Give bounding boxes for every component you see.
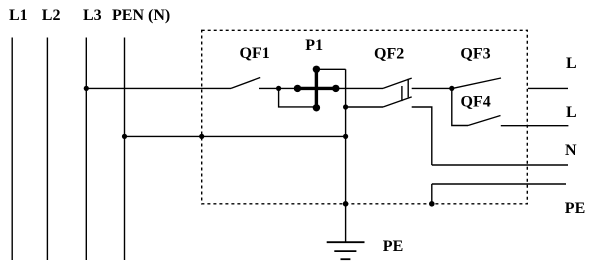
switch QF3 blade [453, 78, 502, 88]
svg-text:QF4: QF4 [461, 94, 491, 111]
switch QF4 blade [468, 116, 501, 126]
svg-text:L: L [566, 104, 577, 121]
node before P1 [276, 86, 281, 91]
node QF2 lower tap [343, 104, 348, 109]
wire L3 to QF1 [86, 87, 231, 89]
wire QF4 branch [452, 88, 468, 125]
svg-text:PEN (N): PEN (N) [112, 7, 170, 24]
wire QF3 fixed contact L out [528, 87, 568, 89]
switch QF2 upper blade [383, 78, 412, 88]
wire QF2 lower output to N [412, 107, 432, 165]
wire N rail [432, 164, 568, 166]
switch QF2 linkage bar 1 [401, 86, 403, 101]
node PE bus ground junction [343, 201, 349, 207]
svg-text:P1: P1 [305, 37, 323, 54]
wire QF1 fixed contact to P1 [259, 87, 294, 89]
svg-text:QF2: QF2 [374, 45, 404, 62]
connector P1 [294, 66, 340, 112]
ground [327, 242, 365, 259]
enclosure dashed box [202, 30, 528, 204]
bus L3 [85, 38, 87, 261]
node QF3-QF4 split [449, 86, 454, 91]
node enclosure entry [199, 134, 204, 139]
switch QF2 linkage bar 2 [407, 79, 409, 98]
node PEN tap [122, 134, 127, 139]
bus L2 [46, 38, 48, 261]
svg-text:L1: L1 [9, 7, 28, 24]
svg-text:PE: PE [383, 238, 403, 255]
bus L1 [11, 38, 13, 261]
wire PE bus vertical [345, 69, 347, 242]
svg-text:QF3: QF3 [460, 45, 490, 62]
svg-text:L: L [566, 55, 577, 72]
wire P1 to QF2 [339, 87, 383, 89]
node PEN junction [343, 134, 348, 139]
node L3 tap [84, 86, 89, 91]
bus PEN [124, 38, 126, 261]
switch QF1 blade [231, 78, 260, 89]
svg-text:L2: L2 [42, 7, 61, 24]
wire QF2 upper output [412, 87, 452, 89]
wire PEN to bus [125, 135, 346, 137]
wire QF4 fixed contact L out [501, 125, 569, 127]
switch QF2 lower blade [383, 97, 412, 107]
wire P1 top link [316, 68, 345, 70]
svg-text:QF1: QF1 [240, 45, 270, 62]
wire QF2 lower input [346, 106, 383, 108]
svg-text:L3: L3 [83, 7, 102, 24]
wire PE rail [432, 183, 566, 185]
svg-text:N: N [565, 142, 577, 159]
wire P1 bypass [279, 88, 317, 107]
node PE rail junction [429, 201, 435, 207]
wire PE drop [431, 184, 433, 204]
svg-text:PE: PE [565, 200, 585, 217]
